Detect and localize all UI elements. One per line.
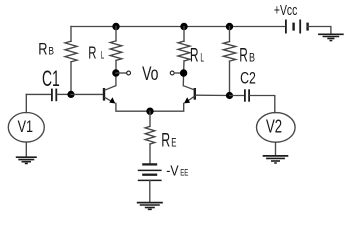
svg-text:R: R (239, 45, 248, 66)
ground (bottom) (137, 202, 163, 204)
wire emitter Q1 to common node (116, 103, 150, 111)
node: rail / RL right junction (180, 23, 187, 30)
resistor RL (right) (183, 27, 185, 42)
wire emitter Q2 to common node (150, 103, 184, 111)
svg-text:R: R (88, 42, 96, 62)
battery +Vcc (285, 20, 287, 34)
source V2 (257, 113, 296, 143)
svg-text:B: B (48, 46, 54, 58)
svg-text:L: L (200, 51, 204, 65)
svg-text:C2: C2 (240, 69, 256, 88)
wire base Q1 (71, 93, 103, 95)
node: collector Q2 / RL (180, 69, 187, 76)
resistor RL (left) (115, 27, 117, 41)
wire top supply rail (71, 26, 285, 28)
transistor Q1 (left npn) (103, 88, 105, 101)
svg-text:R: R (161, 129, 170, 151)
terminal Vo left (open circle) (127, 71, 131, 75)
svg-text:C1: C1 (42, 66, 60, 91)
svg-text:-V: -V (166, 164, 179, 180)
svg-text:+Vcc: +Vcc (274, 2, 298, 19)
capacitor C2 (230, 95, 245, 97)
wire -VEE to ground (149, 180, 151, 202)
node: C1 / RB / base junction (67, 91, 74, 98)
node: common emitter junction (146, 108, 153, 115)
wire base Q2 (196, 94, 230, 96)
wire collector Q2 (182, 73, 184, 86)
ground (top right) (318, 33, 344, 35)
resistor RE (149, 111, 151, 126)
resistor RB (right) (229, 27, 231, 42)
node: C2 / RB / base junction (226, 92, 233, 99)
svg-text:V1: V1 (18, 118, 33, 136)
svg-text:R: R (190, 45, 199, 66)
ground (under V1) (16, 156, 37, 158)
svg-text:EE: EE (180, 168, 188, 179)
svg-text:L: L (101, 50, 104, 62)
ground (under V2) (263, 155, 289, 157)
node: rail / RB right junction (226, 23, 233, 30)
transistor Q2 (right npn) (194, 88, 196, 100)
capacitor C1 (26, 93, 51, 95)
svg-text:E: E (171, 135, 176, 149)
wire Vo tap left (116, 72, 127, 74)
wire V2 to ground (275, 142, 277, 155)
battery -VEE (142, 163, 157, 165)
wire V1 to C1 (25, 94, 27, 112)
svg-text:Vo: Vo (142, 64, 158, 85)
arrow emitter Q2 (184, 97, 190, 103)
svg-text:B: B (249, 52, 255, 64)
svg-text:V2: V2 (266, 117, 282, 137)
wire collector Q1 (115, 73, 117, 86)
arrow emitter Q1 (109, 97, 115, 103)
wire V1 to ground (25, 142, 27, 157)
wire C2 to V2 (250, 96, 275, 113)
svg-text:R: R (38, 40, 47, 59)
resistor RB (left) (70, 27, 72, 42)
source V1 (8, 113, 44, 143)
terminal Vo right (open circle) (170, 71, 174, 75)
node: rail / RL left junction (112, 23, 119, 30)
node: collector Q1 / RL (112, 69, 119, 76)
wire Vo tap right (174, 72, 183, 74)
wire battery to ground (308, 27, 331, 35)
